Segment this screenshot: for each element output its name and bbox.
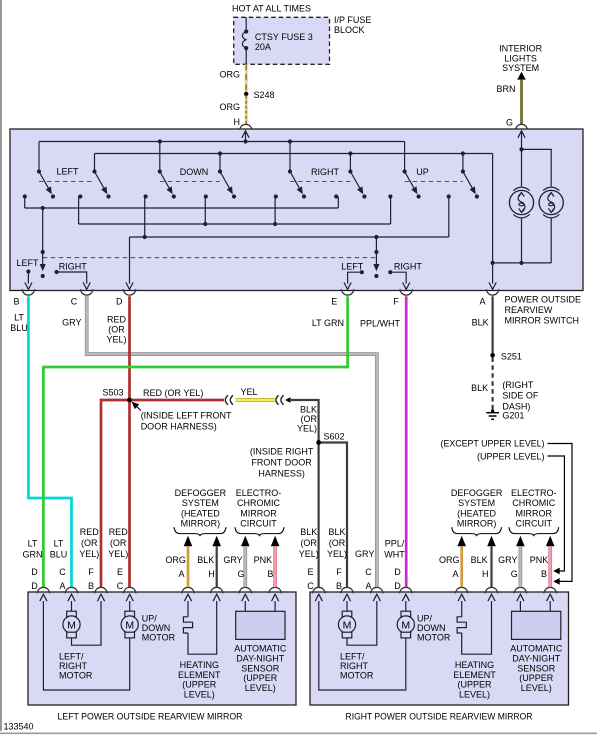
svg-text:ELECTRO-: ELECTRO-: [236, 488, 282, 498]
svg-text:LT GRN: LT GRN: [312, 318, 344, 328]
svg-text:ORG: ORG: [165, 555, 186, 565]
svg-text:MIRROR: MIRROR: [516, 509, 553, 519]
splice S602: [316, 432, 344, 445]
svg-text:AUTOMATIC: AUTOMATIC: [234, 644, 287, 654]
svg-text:E: E: [331, 297, 337, 307]
wire pivot stubs: [39, 139, 465, 171]
svg-text:(OR: (OR: [108, 325, 125, 335]
svg-text:LT: LT: [14, 313, 24, 323]
label GRY G: [223, 555, 242, 565]
svg-text:WHT: WHT: [384, 550, 405, 560]
svg-text:A: A: [365, 581, 371, 591]
I/P fuse block box: [234, 17, 330, 64]
svg-text:HOT AT ALL TIMES: HOT AT ALL TIMES: [232, 4, 311, 14]
wire PPL/WHT (circuit F): [405, 296, 408, 587]
svg-text:BLK: BLK: [197, 555, 214, 565]
svg-text:(UPPER: (UPPER: [243, 673, 278, 683]
right mirror motors heater sensor: [312, 587, 560, 690]
svg-text:GRY: GRY: [62, 318, 81, 328]
power outside rearview mirror switch box: [10, 129, 583, 291]
selector arm left: [40, 208, 46, 278]
svg-text:M: M: [67, 619, 76, 631]
svg-text:DOWN: DOWN: [180, 167, 209, 177]
left-right selector linkage dashed: [43, 257, 377, 259]
svg-text:DAY-NIGHT: DAY-NIGHT: [512, 653, 561, 663]
svg-text:ORG: ORG: [219, 102, 240, 112]
label GRY: [62, 318, 81, 328]
svg-text:GRN: GRN: [23, 550, 43, 560]
brace electro-chromic (L): [235, 527, 284, 536]
label PNK B: [254, 555, 273, 565]
svg-text:(OR: (OR: [329, 538, 346, 548]
label electro-chromic (R): [511, 488, 557, 529]
svg-text:LEVEL): LEVEL): [459, 689, 490, 699]
figure number 133540: [4, 722, 34, 732]
svg-text:(UPPER: (UPPER: [457, 680, 492, 690]
svg-text:B: B: [541, 569, 547, 579]
svg-text:REARVIEW: REARVIEW: [505, 305, 553, 315]
svg-text:LT: LT: [54, 539, 64, 549]
svg-text:MIRROR SWITCH: MIRROR SWITCH: [505, 316, 580, 326]
svg-text:PNK: PNK: [530, 555, 549, 565]
label RED OR YEL (mirror E): [108, 527, 128, 559]
svg-text:BLK: BLK: [472, 318, 489, 328]
svg-text:BLU: BLU: [50, 550, 68, 560]
svg-text:RED: RED: [107, 315, 127, 325]
svg-text:A: A: [59, 581, 65, 591]
svg-text:SENSOR: SENSOR: [517, 663, 556, 673]
ground G201: [486, 409, 524, 420]
wire GRY (circuit C): [87, 296, 377, 587]
terminal H: [234, 117, 253, 130]
svg-text:B: B: [13, 297, 19, 307]
splice S248: [244, 90, 275, 100]
label defogger system (R): [451, 488, 503, 529]
wire contact drops: [25, 197, 449, 238]
brace defogger (L): [174, 527, 226, 536]
svg-text:CIRCUIT: CIRCUIT: [516, 519, 553, 529]
arrow to interior lights system: [517, 72, 526, 80]
wire BRN: [496, 79, 521, 124]
svg-text:BLK: BLK: [328, 527, 345, 537]
svg-text:SENSOR: SENSOR: [241, 663, 280, 673]
label LEFT (selector right): [341, 262, 364, 272]
label INSIDE RIGHT FRONT DOOR HARNESS: [250, 447, 314, 479]
svg-text:MIRROR: MIRROR: [240, 509, 277, 519]
svg-text:GRY: GRY: [223, 555, 242, 565]
svg-text:C: C: [365, 567, 372, 577]
wire RED S503 right branch: [132, 388, 225, 400]
wire RED S503 left branch: [101, 400, 130, 587]
label auto day-night sensor (L): [234, 644, 287, 694]
label heating element (L): [178, 660, 221, 699]
wire D drop: [126, 237, 133, 289]
svg-text:HEATING: HEATING: [455, 660, 494, 670]
illumination lamp 1: [509, 187, 533, 218]
svg-text:BRN: BRN: [496, 84, 515, 94]
label LEFT (selector): [16, 258, 39, 268]
svg-text:(INSIDE RIGHT: (INSIDE RIGHT: [250, 447, 314, 457]
svg-text:M: M: [125, 619, 134, 631]
svg-text:UP: UP: [416, 167, 429, 177]
svg-text:RED: RED: [109, 527, 129, 537]
svg-text:YEL): YEL): [106, 335, 126, 345]
inline connector 2: [276, 395, 284, 404]
svg-text:YEL): YEL): [108, 549, 128, 559]
label BLK H (R): [471, 555, 488, 565]
label up/down motor (L): [142, 614, 176, 643]
inline connector 1: [225, 395, 233, 404]
wire lamp return: [491, 219, 552, 265]
svg-text:RIGHT: RIGHT: [59, 661, 88, 671]
svg-text:(HEATED: (HEATED: [457, 509, 496, 519]
svg-text:133540: 133540: [4, 722, 34, 732]
svg-text:GRY: GRY: [355, 549, 374, 559]
brace electro-chromic (R): [509, 527, 559, 536]
svg-text:A: A: [479, 297, 485, 307]
svg-text:RIGHT: RIGHT: [340, 661, 369, 671]
svg-text:(OR: (OR: [110, 538, 127, 548]
svg-text:(OR: (OR: [300, 538, 317, 548]
defogger arrows and wires (R): [457, 536, 495, 587]
wire BLK S602 down: [318, 445, 320, 588]
label LEFT (mirror select up): [56, 166, 79, 176]
svg-text:ELEMENT: ELEMENT: [453, 670, 496, 680]
svg-text:YEL): YEL): [297, 424, 317, 434]
label ORG A: [165, 555, 186, 565]
label RED OR YEL (mirror F): [79, 527, 99, 559]
svg-text:M: M: [401, 619, 410, 631]
svg-text:DEFOGGER: DEFOGGER: [175, 488, 227, 498]
splice S503: [102, 388, 131, 403]
svg-text:C: C: [71, 297, 78, 307]
label defogger system (L): [175, 488, 227, 529]
svg-text:D: D: [31, 581, 38, 591]
svg-text:DOWN: DOWN: [142, 623, 171, 633]
svg-text:MOTOR: MOTOR: [340, 671, 374, 681]
svg-text:UP/: UP/: [142, 614, 158, 624]
svg-text:LIGHTS: LIGHTS: [504, 53, 537, 63]
svg-text:FRONT DOOR: FRONT DOOR: [251, 458, 312, 468]
svg-text:RIGHT: RIGHT: [311, 167, 340, 177]
svg-text:I/P FUSE: I/P FUSE: [334, 15, 371, 25]
svg-text:C: C: [117, 581, 124, 591]
svg-text:H: H: [208, 569, 215, 579]
svg-text:S503: S503: [102, 388, 123, 398]
svg-text:D: D: [116, 297, 123, 307]
wire top rail 2: [95, 153, 493, 155]
svg-text:(RIGHT: (RIGHT: [502, 380, 533, 390]
svg-text:LEVEL): LEVEL): [184, 689, 215, 699]
label left/right motor (L): [59, 652, 93, 681]
svg-text:BLK: BLK: [471, 383, 488, 393]
svg-text:ELEMENT: ELEMENT: [178, 670, 221, 680]
wire ORG S248 to H: [219, 96, 246, 124]
wire BLK A to S251: [472, 296, 493, 353]
brace defogger (R): [452, 527, 502, 536]
svg-text:AUTOMATIC: AUTOMATIC: [510, 644, 563, 654]
svg-text:G: G: [506, 118, 513, 128]
svg-text:LEFT: LEFT: [341, 262, 364, 272]
left power outside rearview mirror box: [28, 592, 296, 722]
defogger arrows and wires (L): [184, 536, 221, 587]
svg-text:LEFT/: LEFT/: [59, 652, 84, 662]
label RIGHT SIDE OF DASH: [502, 380, 539, 411]
svg-text:(OR: (OR: [301, 414, 318, 424]
node H entry: [242, 131, 249, 144]
node E contact: [344, 270, 364, 289]
label BLK OR YEL (mirror B): [327, 527, 347, 559]
electro arrows and wires (R): [516, 536, 554, 587]
svg-text:D: D: [394, 567, 401, 577]
svg-text:BLOCK: BLOCK: [334, 25, 365, 35]
label RED (OR YEL): [106, 315, 126, 345]
left mirror motors heater sensor: [37, 587, 285, 690]
svg-text:PPL/WHT: PPL/WHT: [360, 319, 401, 329]
svg-text:BLU: BLU: [10, 323, 28, 333]
svg-text:F: F: [393, 297, 399, 307]
label POWER OUTSIDE REARVIEW MIRROR SWITCH: [505, 295, 582, 326]
svg-text:G: G: [511, 569, 518, 579]
svg-text:E: E: [117, 567, 123, 577]
wire BLK (OR YEL) to S602: [285, 397, 319, 440]
label auto day-night sensor (R): [510, 644, 563, 694]
label LT BLU: [10, 313, 28, 334]
label electro-chromic (L): [236, 488, 282, 529]
switch arms with contacts: [23, 169, 479, 198]
svg-text:(UPPER LEVEL): (UPPER LEVEL): [477, 452, 545, 462]
label RIGHT (selector right): [394, 262, 423, 272]
wire bus 1: [25, 206, 339, 210]
svg-text:S248: S248: [254, 90, 275, 100]
svg-text:LEFT: LEFT: [16, 258, 39, 268]
svg-text:SIDE OF: SIDE OF: [502, 391, 539, 401]
svg-text:PPL/: PPL/: [385, 539, 405, 549]
label HOT AT ALL TIMES: [232, 4, 311, 14]
wire ORG fuse to S248: [219, 64, 246, 92]
svg-text:RIGHT: RIGHT: [394, 262, 423, 272]
switch terminals B C D E F A: [13, 289, 499, 306]
svg-text:(UPPER: (UPPER: [519, 673, 554, 683]
terminal G: [506, 118, 528, 131]
right mirror pin letters: [307, 567, 547, 591]
node C contact: [55, 270, 91, 290]
svg-text:INTERIOR: INTERIOR: [499, 44, 543, 54]
svg-text:F: F: [336, 567, 342, 577]
label PPL/WHT (mirror D): [384, 539, 405, 560]
svg-text:BLK: BLK: [300, 405, 317, 415]
svg-text:UP/: UP/: [417, 614, 433, 624]
svg-text:D: D: [31, 567, 38, 577]
svg-text:ELECTRO-: ELECTRO-: [511, 488, 557, 498]
svg-text:LEVEL): LEVEL): [245, 683, 276, 693]
svg-text:YEL): YEL): [299, 549, 319, 559]
label BLK OR YEL (mirror C): [299, 527, 319, 559]
svg-text:B: B: [336, 581, 342, 591]
svg-text:MOTOR: MOTOR: [142, 633, 176, 643]
svg-text:LEFT POWER OUTSIDE REARVIEW MI: LEFT POWER OUTSIDE REARVIEW MIRROR: [58, 712, 243, 722]
svg-text:(HEATED: (HEATED: [181, 509, 220, 519]
label PPL/WHT: [360, 319, 401, 329]
selector arm right: [373, 237, 379, 278]
svg-text:MIRROR): MIRROR): [181, 519, 221, 529]
wire RED S503 down branch: [128, 402, 131, 587]
svg-text:PNK: PNK: [254, 555, 273, 565]
label GRY G (R): [498, 555, 517, 565]
svg-text:CTSY FUSE 3: CTSY FUSE 3: [255, 32, 313, 42]
label GRY (mirror A): [355, 549, 374, 559]
svg-text:MOTOR: MOTOR: [417, 633, 451, 643]
label INTERIOR LIGHTS SYSTEM: [499, 44, 543, 74]
svg-text:MIRROR): MIRROR): [457, 519, 497, 529]
label UP: [416, 167, 429, 177]
wire BLK S251 to ground dashed: [471, 358, 492, 411]
svg-text:D: D: [394, 581, 401, 591]
wire LT BLU (circuit B): [28, 296, 71, 587]
svg-text:BLK: BLK: [471, 555, 488, 565]
svg-text:ORG: ORG: [219, 70, 240, 80]
svg-text:M: M: [343, 619, 352, 631]
label UPPER LEVEL callout: [477, 452, 564, 575]
svg-text:A: A: [178, 569, 184, 579]
svg-text:YEL): YEL): [79, 549, 99, 559]
svg-text:CIRCUIT: CIRCUIT: [240, 519, 277, 529]
svg-text:S602: S602: [324, 432, 345, 442]
svg-text:MOTOR: MOTOR: [59, 671, 93, 681]
label LT BLU (mirror): [50, 539, 68, 560]
svg-text:(INSIDE LEFT FRONT: (INSIDE LEFT FRONT: [141, 411, 232, 421]
wire A drop: [489, 154, 496, 290]
svg-text:POWER OUTSIDE: POWER OUTSIDE: [505, 295, 582, 305]
wire bus 2: [79, 222, 391, 226]
svg-text:C: C: [307, 581, 314, 591]
svg-text:ORG: ORG: [439, 555, 460, 565]
svg-text:G201: G201: [502, 411, 524, 421]
switch linkages dashed: [39, 181, 463, 183]
label LT GRN: [312, 318, 344, 328]
label INSIDE LEFT FRONT DOOR HARNESS: [132, 402, 233, 432]
left mirror pin letters: [31, 567, 273, 591]
electro arrows and wires (L): [241, 536, 279, 587]
svg-text:LEVEL): LEVEL): [521, 683, 552, 693]
wire RED D to S503: [128, 296, 131, 398]
label PNK B (R): [530, 555, 549, 565]
svg-text:DAY-NIGHT: DAY-NIGHT: [236, 653, 285, 663]
label RIGHT (switch): [311, 167, 340, 177]
svg-text:B: B: [267, 569, 273, 579]
svg-text:SYSTEM: SYSTEM: [182, 498, 219, 508]
right power outside rearview mirror box: [310, 592, 569, 722]
label LT GRN (mirror): [23, 539, 43, 560]
label ORG A (R): [439, 555, 460, 565]
wire lamp feed: [522, 149, 552, 186]
label RIGHT (selector): [59, 262, 88, 272]
svg-text:DOWN: DOWN: [417, 623, 446, 633]
svg-text:S251: S251: [501, 352, 522, 362]
fuse CTSY FUSE 3 20A: [242, 17, 312, 64]
label left/right motor (R): [340, 652, 374, 681]
svg-text:RED (OR YEL): RED (OR YEL): [143, 388, 203, 398]
svg-text:RED: RED: [80, 527, 100, 537]
svg-text:HARNESS): HARNESS): [258, 469, 305, 479]
label EXCEPT UPPER LEVEL callout: [441, 439, 573, 585]
svg-text:DEFOGGER: DEFOGGER: [451, 488, 503, 498]
label up/down motor (R): [417, 614, 451, 643]
node F contact: [388, 270, 410, 289]
wire YEL: [236, 387, 276, 400]
wire BLK S602 branch right: [319, 443, 347, 588]
wire top rail 1: [39, 141, 405, 143]
svg-text:F: F: [88, 567, 94, 577]
svg-text:RIGHT POWER OUTSIDE REARVIEW M: RIGHT POWER OUTSIDE REARVIEW MIRROR: [346, 712, 533, 722]
svg-text:H: H: [234, 117, 241, 127]
svg-text:LEFT: LEFT: [56, 166, 79, 176]
svg-text:CHROMIC: CHROMIC: [512, 498, 555, 508]
svg-text:GRY: GRY: [498, 555, 517, 565]
svg-text:(UPPER: (UPPER: [182, 680, 217, 690]
label I/P FUSE BLOCK: [334, 15, 371, 35]
svg-text:E: E: [307, 567, 313, 577]
svg-text:B: B: [88, 581, 94, 591]
node B contact: [25, 269, 32, 289]
svg-text:A: A: [452, 569, 458, 579]
svg-text:20A: 20A: [255, 42, 271, 52]
splice S251: [490, 352, 522, 362]
label DOWN: [180, 167, 209, 177]
svg-text:(OR: (OR: [81, 538, 98, 548]
label BLK H: [197, 555, 214, 565]
svg-text:CHROMIC: CHROMIC: [237, 498, 280, 508]
node G entry: [518, 131, 525, 152]
svg-text:YEL: YEL: [240, 387, 257, 397]
page bottom rule: [0, 732, 597, 734]
svg-text:BLK: BLK: [300, 527, 317, 537]
svg-text:(EXCEPT UPPER LEVEL): (EXCEPT UPPER LEVEL): [441, 439, 545, 449]
illumination lamp 2: [539, 187, 563, 218]
label heating element (R): [453, 660, 496, 699]
svg-text:H: H: [482, 569, 489, 579]
page left border: [0, 0, 2, 731]
svg-text:YEL): YEL): [327, 549, 347, 559]
svg-text:HEATING: HEATING: [180, 660, 219, 670]
svg-text:DOOR HARNESS): DOOR HARNESS): [141, 422, 217, 432]
wire LT GRN (circuit E): [43, 296, 347, 587]
svg-text:LEFT/: LEFT/: [340, 652, 365, 662]
wire bus 3: [130, 235, 449, 239]
svg-text:RIGHT: RIGHT: [59, 262, 88, 272]
svg-text:SYSTEM: SYSTEM: [502, 63, 539, 73]
svg-text:C: C: [59, 567, 66, 577]
svg-text:SYSTEM: SYSTEM: [458, 498, 495, 508]
svg-text:LT: LT: [28, 539, 38, 549]
